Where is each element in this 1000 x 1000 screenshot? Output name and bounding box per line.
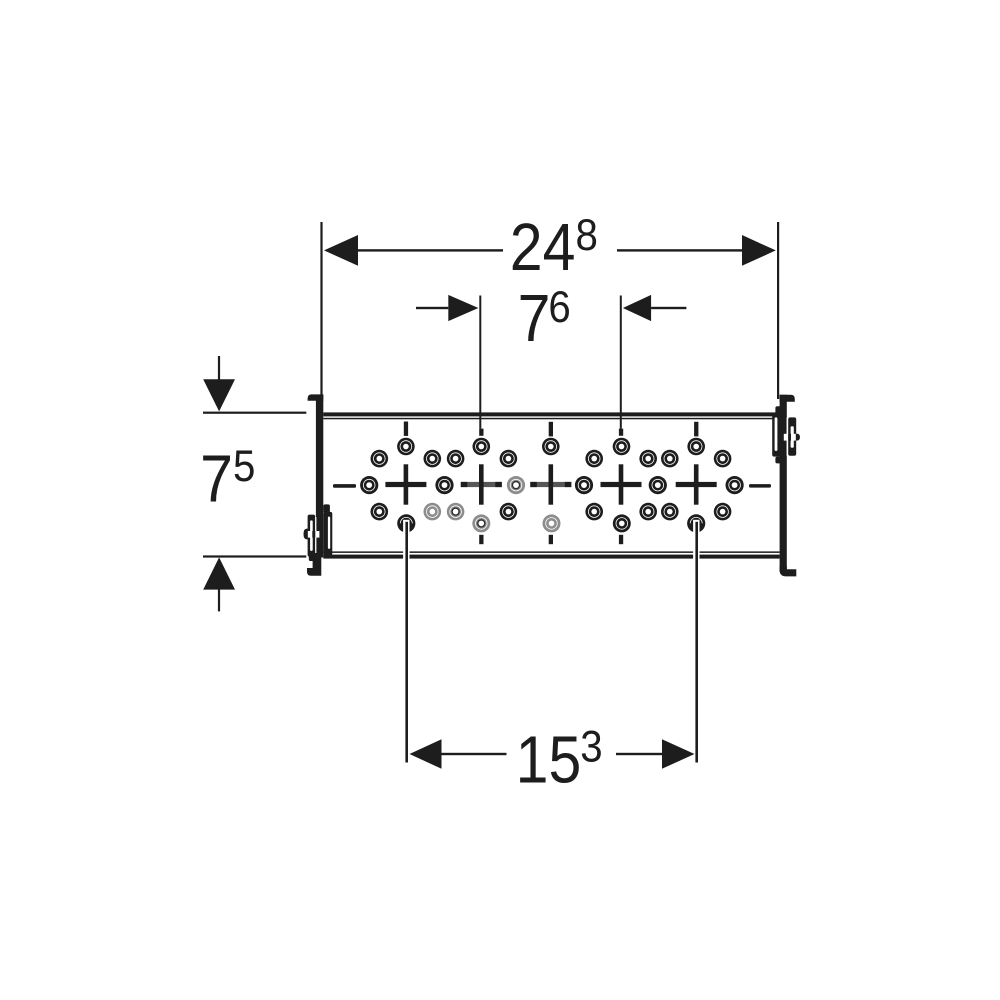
svg-text:6: 6 <box>548 283 570 332</box>
screw hole top row 1 <box>397 438 415 456</box>
dimension 75 extension line bottom <box>203 555 306 557</box>
screw hole bottom row 4 <box>613 514 631 532</box>
dimension 248 line right segment <box>617 249 742 251</box>
vertical center mark above hole group 4 <box>619 429 623 436</box>
dimension 75 arrowhead top <box>203 379 235 411</box>
dimension 153 line left segment <box>442 753 507 755</box>
rail left end bar <box>316 395 323 558</box>
vertical center mark below hole group 3 <box>549 535 553 544</box>
dimension 248 arrowhead left <box>324 235 358 266</box>
screw hole lower row 2 <box>424 503 442 521</box>
vertical center mark above hole group 1 <box>404 422 408 436</box>
screw hole upper row 6 <box>639 450 657 468</box>
rail top edge thin line <box>323 418 779 420</box>
screw hole upper row 3 <box>447 450 465 468</box>
dimension 75 tail line top <box>218 356 220 380</box>
rail bottom edge thin line <box>323 551 779 553</box>
dimension 153 line right segment <box>616 753 662 755</box>
screw hole top row 4 <box>613 438 631 456</box>
dimension 75 extension line top <box>203 412 306 414</box>
screw hole center row 2 <box>435 476 453 494</box>
vertical center mark above hole group 5 <box>694 422 698 437</box>
svg-text:3: 3 <box>580 723 602 772</box>
vertical center mark below hole group 4 <box>619 535 623 544</box>
dimension 75 tail line bottom <box>218 589 220 611</box>
screw hole lower row 1 <box>371 503 389 521</box>
screw hole upper row 5 <box>585 450 603 468</box>
screw hole upper row 2 <box>424 450 442 468</box>
vertical center mark above hole group 3 <box>549 422 553 437</box>
screw hole center row 1 <box>360 476 378 494</box>
cross mark 4 <box>601 464 642 504</box>
dimension 75 arrowhead bottom <box>203 557 235 589</box>
dimension 153 extension line left (white halo through rail) <box>403 520 409 763</box>
dimension 248 extension line right <box>777 222 779 399</box>
screw hole top row 5 <box>687 438 705 456</box>
screw hole bottom row 3 <box>543 514 561 532</box>
dimension 76 arrowhead right <box>623 295 651 321</box>
screw hole upper row 8 <box>714 450 732 468</box>
cross mark 3 <box>530 464 571 504</box>
svg-text:15: 15 <box>516 723 582 797</box>
screw hole center row 4 <box>575 476 593 494</box>
svg-text:7: 7 <box>200 442 233 516</box>
rail right end bar <box>780 395 787 572</box>
cross mark 5 <box>676 464 717 504</box>
screw hole center row 6 <box>726 476 744 494</box>
dimension 76 extension line left <box>479 296 481 429</box>
screw hole bottom row 2 <box>472 514 490 532</box>
screw hole lower row 6 <box>639 503 657 521</box>
dimension 248 arrowhead right <box>742 235 776 266</box>
screw hole lower row 8 <box>714 503 732 521</box>
screw hole lower row 5 <box>585 503 603 521</box>
wall anchor bracket right <box>772 406 800 463</box>
vertical center mark above hole group 2 <box>479 429 483 436</box>
centerline dash right <box>749 484 771 488</box>
wall anchor bracket left <box>304 504 333 561</box>
screw hole top row 2 <box>473 438 491 456</box>
screw hole lower row 3 <box>447 503 465 521</box>
screw hole lower row 4 <box>500 503 518 521</box>
vertical center mark below hole group 2 <box>479 535 483 544</box>
screw hole upper row 1 <box>371 450 389 468</box>
screw hole top row 3 <box>542 438 560 456</box>
dimension 76 tail line right <box>651 307 686 309</box>
screw hole center row 3 <box>507 476 525 494</box>
screw hole bottom row 1 (with extension line) <box>397 514 415 532</box>
screw hole bottom row 5 (with extension line) <box>687 514 705 532</box>
centerline dash left <box>333 484 356 488</box>
svg-text:24: 24 <box>510 211 576 285</box>
dimension 76 tail line left <box>416 307 448 309</box>
svg-text:8: 8 <box>576 211 598 260</box>
cross mark 2 <box>461 464 502 504</box>
dimension 76 extension line right <box>620 296 622 429</box>
rail right end top hook <box>780 395 795 402</box>
screw hole upper row 7 <box>661 450 679 468</box>
rail right end bottom hook <box>780 566 797 576</box>
screw hole upper row 4 <box>500 450 518 468</box>
dimension 76 arrowhead left <box>448 295 478 321</box>
dimension 153 arrowhead left <box>410 739 442 769</box>
screw hole lower row 7 <box>661 503 679 521</box>
dimension 153 extension line right (white halo through rail) <box>693 520 699 763</box>
rail left end bottom hook <box>307 550 321 576</box>
rail bottom edge thick line <box>323 555 779 559</box>
dimension 248 extension line left <box>320 222 322 399</box>
screw hole center row 5 <box>649 476 667 494</box>
svg-text:7: 7 <box>518 282 551 356</box>
svg-text:5: 5 <box>233 442 255 491</box>
cross mark 1 <box>385 464 426 504</box>
dimension 248 line left segment <box>358 249 503 251</box>
dimension 153 arrowhead right <box>662 739 695 769</box>
rail left end top hook <box>308 394 324 400</box>
rail top edge thick line <box>323 412 779 416</box>
